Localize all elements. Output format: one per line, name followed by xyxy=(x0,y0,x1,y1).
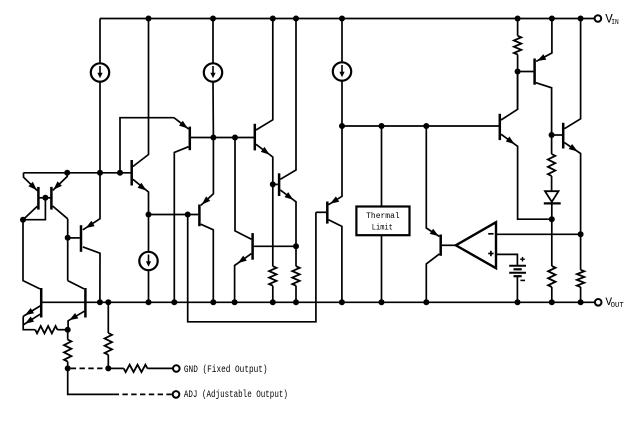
transistor Q11 bar xyxy=(439,235,442,256)
transistor Q15 bar xyxy=(40,288,43,318)
wire I2 to node B xyxy=(212,82,214,138)
transistor Q16 collector xyxy=(68,281,84,289)
wire node H to R9 xyxy=(108,367,123,369)
wire Q3 base xyxy=(68,237,80,239)
wire Q1-Q2 base tie xyxy=(38,197,51,199)
resistor R2 xyxy=(548,154,555,176)
transistor Q7 bar xyxy=(254,124,257,151)
wire Q14 emitter to R4 xyxy=(580,234,582,269)
wire I4 to VOUT rail xyxy=(148,270,150,302)
transistor Q13 emitter xyxy=(536,19,552,62)
transistor Q10 bar xyxy=(326,202,329,224)
label GND (Fixed Output) xyxy=(184,364,268,375)
wire Q9 emitter to R6 xyxy=(295,246,297,266)
wire VOUT bottom rail xyxy=(41,301,595,303)
wire Q4 emitter to I4 xyxy=(148,215,150,252)
wire thermal limit to VOUT rail xyxy=(381,235,383,302)
transistor Q10 collector xyxy=(329,220,342,303)
svg-text:Limit: Limit xyxy=(372,222,393,232)
block Thermal Limit box xyxy=(356,207,409,236)
node D dot xyxy=(515,69,521,75)
transistor Q12 collector xyxy=(501,72,518,121)
transistor Q2 collector xyxy=(53,206,68,219)
terminal VOUT xyxy=(595,299,602,306)
wire I3 to node C xyxy=(341,81,343,126)
transistor Q9 bar xyxy=(278,173,281,196)
transistor Q6 bar xyxy=(198,205,201,227)
node C dots xyxy=(339,123,429,129)
resistor R10 xyxy=(64,340,71,362)
node F dot xyxy=(65,327,71,333)
wire Q8 base xyxy=(254,245,296,247)
node Q3 base dot xyxy=(65,235,71,241)
battery V1 minus sign xyxy=(520,279,525,281)
op-amp U1 minus sign xyxy=(488,233,493,235)
svg-text:Thermal: Thermal xyxy=(366,211,400,221)
transistor Q13 bar xyxy=(533,59,536,85)
svg-text:GND (Fixed Output): GND (Fixed Output) xyxy=(184,364,268,375)
terminal GND xyxy=(173,365,180,372)
battery V1 plate long bottom xyxy=(509,272,526,274)
wire node C horizontal xyxy=(342,125,499,127)
wire ADJ dashed xyxy=(114,393,173,395)
svg-text:ADJ (Adjustable Output): ADJ (Adjustable Output) xyxy=(184,389,288,400)
transistor Q15 collector xyxy=(23,220,40,289)
wire op-amp inverting input xyxy=(496,233,581,235)
battery V1 plate long top xyxy=(509,265,526,267)
wire Q15 emitters down xyxy=(23,316,35,330)
wire node B horizontal xyxy=(191,137,254,139)
wire D1 to node E xyxy=(551,203,553,219)
transistor Q15 emitter 1 xyxy=(23,306,40,317)
terminal VIN xyxy=(595,15,602,22)
battery V1 plus sign xyxy=(520,257,525,262)
terminal ADJ xyxy=(173,391,180,398)
wire top rail to I3 xyxy=(341,19,343,63)
wire node G to node H dashed xyxy=(71,367,106,369)
node Q6 base dot xyxy=(185,212,191,218)
transistor Q12 bar xyxy=(499,114,502,140)
wire VOUT rail to R7 xyxy=(107,302,109,333)
wire R3 to VOUT rail xyxy=(551,287,553,302)
transistor Q16 bar xyxy=(84,288,87,318)
wire R1 to node D xyxy=(517,55,519,72)
transistor Q5 collector xyxy=(174,147,188,303)
transistor Q9 emitter xyxy=(280,190,296,246)
wire top rail to I1 xyxy=(99,19,101,64)
wire VIN top rail xyxy=(100,18,595,20)
transistor Q14 emitter xyxy=(564,143,580,235)
node B dots xyxy=(210,135,238,141)
transistor Q16 emitter xyxy=(68,311,84,330)
current source I3 xyxy=(333,62,351,80)
battery V1 plate short 2 xyxy=(514,275,522,277)
wire top rail to R1 xyxy=(517,19,519,36)
wire R9 to GND terminal xyxy=(147,367,173,369)
transistor Q8 emitter xyxy=(235,254,252,303)
wire op-amp non-inverting input xyxy=(496,254,517,265)
wire Q10 base xyxy=(316,211,326,213)
wire R10 to node G xyxy=(67,362,69,369)
wire node D down xyxy=(517,72,519,110)
node Q12 emitter dot xyxy=(549,216,555,222)
transistor Q9 collector xyxy=(280,19,296,180)
wire node A horizontal xyxy=(24,172,131,174)
wire Q14 base to R2 xyxy=(551,135,553,154)
svg-text:OUT: OUT xyxy=(611,302,625,310)
transistor Q2 emitter xyxy=(53,173,67,191)
op-amp U1 plus sign xyxy=(488,251,493,256)
wire Q7 emitter to R5 xyxy=(272,184,274,266)
transistor Q3 emitter xyxy=(83,173,100,230)
transistor Q12 emitter xyxy=(501,134,552,219)
node VOUT junction dots on bottom rail xyxy=(97,299,584,305)
wire Q9 base xyxy=(273,183,278,185)
transistor Q4 bar xyxy=(130,160,133,186)
current source I2 xyxy=(204,63,222,81)
resistor R9 xyxy=(124,365,148,372)
wire R5 to VOUT rail xyxy=(272,286,274,303)
resistor R6 xyxy=(292,266,299,286)
transistor Q11 collector xyxy=(426,254,439,302)
node Q9 emitter dot xyxy=(293,243,299,249)
transistor Q1 bar xyxy=(37,187,40,210)
current source I4 xyxy=(139,252,157,270)
diode D1 xyxy=(544,191,561,203)
transistor Q6 emitter xyxy=(201,138,214,206)
transistor Q5 emitter xyxy=(174,118,189,129)
wire Q13 base xyxy=(518,71,534,73)
wire Q14 base xyxy=(552,134,562,136)
transistor Q2 bar xyxy=(50,187,53,210)
battery V1 plate short 1 xyxy=(514,268,522,270)
resistor R1 xyxy=(514,36,521,55)
transistor Q5 bar xyxy=(189,127,192,151)
transistor Q8 bar xyxy=(251,233,254,260)
node Q7 emitter dot xyxy=(270,181,276,187)
wire R4 to VOUT rail xyxy=(580,287,582,302)
transistor Q10 emitter xyxy=(329,126,343,205)
wire base tie to Q1 collector xyxy=(23,198,45,220)
wire R7 to node H xyxy=(107,355,109,369)
transistor Q4 emitter xyxy=(133,179,149,214)
transistor Q11 emitter xyxy=(426,126,439,237)
op-amp U1 triangle xyxy=(456,222,496,268)
transistor Q3 bar xyxy=(80,225,83,252)
transistor Q7 emitter xyxy=(256,144,273,184)
wire feedback sense xyxy=(188,212,316,321)
node inverting input dot xyxy=(578,231,584,237)
resistor R3 xyxy=(548,266,555,287)
wire R6 to VOUT rail xyxy=(295,286,297,303)
transistor Q3 collector xyxy=(83,247,100,302)
wire R2 to D1 xyxy=(551,176,553,191)
wire Q11 base to op-amp xyxy=(442,244,456,246)
transistor Q13 collector xyxy=(536,83,552,135)
label VOUT xyxy=(605,297,624,310)
node A dots xyxy=(64,170,123,176)
current source I1 xyxy=(91,63,109,81)
transistor Q1 emitter xyxy=(24,173,38,191)
resistor R5 xyxy=(269,266,276,286)
svg-text:IN: IN xyxy=(611,19,619,27)
resistor R7 xyxy=(105,333,112,355)
wire node A to Q5 emitter xyxy=(120,118,174,173)
node base-tie dot xyxy=(42,195,48,201)
label Thermal Limit xyxy=(366,211,400,232)
transistor Q6 collector xyxy=(201,224,214,302)
label VIN xyxy=(605,13,619,27)
node G dot xyxy=(65,365,71,371)
resistor R4 xyxy=(577,270,584,287)
wire I1 to node A xyxy=(99,82,101,173)
transistor Q7 collector xyxy=(256,19,273,131)
wire node F to R10 xyxy=(67,330,69,340)
wire Q6 base xyxy=(149,214,199,216)
node Q14 base dot xyxy=(549,132,555,138)
transistor Q4 collector xyxy=(133,19,149,167)
node Q4 emitter dot xyxy=(146,212,152,218)
wire battery to VOUT rail xyxy=(516,276,518,302)
transistor Q14 collector xyxy=(564,19,580,129)
transistor Q1 collector xyxy=(23,206,37,220)
transistor Q15 emitter 2 xyxy=(23,314,40,325)
node VIN junction dots on top rail xyxy=(146,16,584,22)
wire R8 to node F xyxy=(57,329,67,331)
node H dot xyxy=(105,365,111,371)
wire Q2 collector down xyxy=(67,219,69,281)
wire node E to R3 xyxy=(551,219,553,266)
wire node C to thermal limit xyxy=(381,126,383,207)
label ADJ (Adjustable Output) xyxy=(184,389,288,400)
transistor Q8 collector xyxy=(235,138,251,240)
node Q1 collector dot xyxy=(20,217,26,223)
wire top rail to I2 xyxy=(212,19,214,64)
resistor R8 xyxy=(35,326,57,333)
transistor Q14 bar xyxy=(562,123,565,149)
wire node G to ADJ corner xyxy=(68,368,114,394)
